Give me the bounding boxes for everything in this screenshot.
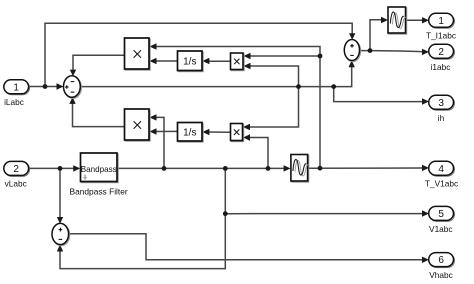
integrator 1/s block 2 bbox=[178, 123, 204, 143]
arrow into sum3 bottom bbox=[349, 60, 355, 67]
svg-text:T_I1abc: T_I1abc bbox=[426, 30, 456, 40]
wire node to smallX1 top input bbox=[250, 55, 321, 57]
outport 1 T_I1abc bbox=[426, 13, 456, 40]
wire vLabc branch down to sum2 top bbox=[59, 168, 61, 217]
arrow into sum3 top bbox=[349, 33, 355, 40]
inport 1 iLabc bbox=[4, 80, 30, 107]
outport 4 T_V1abc bbox=[425, 161, 458, 188]
junction node sum1 output to smallX chain bbox=[296, 84, 301, 89]
arrow into outport i1abc bbox=[422, 49, 429, 55]
svg-text:ih: ih bbox=[438, 113, 445, 123]
sum1 bbox=[64, 76, 82, 99]
arrow into product1 top input bbox=[150, 43, 157, 49]
scope block 2 (waveform icon) bbox=[291, 155, 309, 183]
wire feedback up from scope2 output bbox=[157, 47, 321, 169]
svg-text:1: 1 bbox=[13, 82, 19, 93]
wire sum1 output bbox=[80, 86, 333, 88]
sum2 bbox=[52, 223, 70, 245]
svg-text:iLabc: iLabc bbox=[4, 97, 24, 107]
svg-text:1: 1 bbox=[438, 16, 444, 27]
wire iLabc to sum1 bbox=[29, 86, 57, 88]
sum3 bbox=[344, 40, 360, 62]
svg-text:vLabc: vLabc bbox=[5, 179, 27, 189]
wire integrator1 to product1 bottom input bbox=[157, 60, 178, 62]
wire node to smallX2 top input bbox=[249, 87, 299, 127]
wire branch to product2 top input bbox=[157, 117, 165, 168]
inport 2 vLabc bbox=[4, 161, 30, 188]
wire sum2 output to outport Vhabc bbox=[69, 234, 423, 260]
svg-text:2: 2 bbox=[13, 164, 19, 175]
arrow into scope2 input bbox=[284, 165, 291, 171]
wire bandpass output to scope2 bbox=[117, 167, 285, 169]
arrow into sum2 top bbox=[57, 217, 63, 224]
svg-text:1/s: 1/s bbox=[183, 56, 196, 67]
arrow into sum1 top bbox=[70, 70, 76, 77]
arrow into sum1 left bbox=[57, 83, 64, 89]
svg-text:i1abc: i1abc bbox=[431, 62, 451, 72]
junction node feedback split bbox=[318, 54, 323, 59]
outport 3 ih bbox=[429, 95, 455, 123]
wire smallX2 to integrator2 bbox=[209, 131, 231, 133]
product block X2 bbox=[125, 109, 151, 141]
svg-text:Vhabc: Vhabc bbox=[429, 270, 453, 280]
wire scope1 to outport T_I1abc bbox=[406, 19, 423, 21]
svg-text:1/s: 1/s bbox=[183, 127, 196, 138]
arrow into outport ih bbox=[422, 98, 429, 104]
arrow into integrator1 input bbox=[202, 58, 209, 64]
arrow into smallX2 top input bbox=[243, 124, 250, 130]
arrow into integrator2 input bbox=[202, 129, 209, 135]
wire branch to smallX2 bottom input bbox=[249, 138, 268, 169]
bandpass filter block bbox=[70, 153, 128, 196]
arrow into smallX1 bottom input bbox=[244, 63, 251, 69]
svg-text:2: 2 bbox=[438, 47, 444, 58]
wire smallX1 to integrator1 bbox=[209, 60, 231, 62]
arrow into sum2 bottom bbox=[57, 245, 63, 252]
arrow into product1 bottom input bbox=[150, 58, 157, 64]
junction node scope2 output feedback bbox=[318, 166, 323, 171]
arrow into outport V1abc bbox=[422, 210, 429, 216]
svg-text:Bandpass Filter: Bandpass Filter bbox=[70, 186, 128, 196]
wire iLabc branch up to sum3 top bbox=[45, 23, 352, 86]
wire product1 output to sum1 top bbox=[73, 55, 125, 70]
wire product2 output to sum1 bottom bbox=[73, 104, 125, 127]
junction node vLabc branch bbox=[58, 166, 63, 171]
small multiply block X3 bbox=[231, 53, 245, 71]
arrow into outport Vhabc bbox=[422, 257, 429, 263]
wire sum3 output to scope1 bbox=[359, 20, 381, 51]
svg-text:6: 6 bbox=[438, 255, 444, 266]
small multiply block X4 bbox=[231, 124, 244, 142]
arrow into outport T_V1abc bbox=[422, 165, 429, 171]
product block X1 bbox=[125, 38, 151, 70]
wire vLabc to bandpass bbox=[29, 167, 75, 169]
arrow into product2 bottom input bbox=[150, 128, 157, 134]
outport 2 i1abc bbox=[429, 44, 455, 72]
wire sum1 output to sum3 bottom bbox=[334, 67, 352, 87]
junction node bandpass line down branch bbox=[223, 166, 228, 171]
wire branch down to sum2 bottom bbox=[60, 168, 225, 268]
wire node to smallX1 bottom input bbox=[250, 66, 299, 87]
arrow into scope1 input bbox=[381, 17, 388, 23]
svg-text:3: 3 bbox=[438, 98, 444, 109]
svg-text:4: 4 bbox=[438, 164, 444, 175]
arrow into bandpass input bbox=[73, 165, 80, 171]
wire scope2 to outport T_V1abc bbox=[308, 167, 423, 169]
wire branch to outport V1abc bbox=[225, 213, 422, 215]
junction node at iLabc branch bbox=[43, 84, 48, 89]
outport 6 Vhabc bbox=[429, 253, 455, 280]
arrow into smallX1 top input bbox=[244, 53, 251, 59]
svg-text:5: 5 bbox=[438, 209, 444, 220]
junction node bandpass line to smallX2 bbox=[266, 166, 271, 171]
svg-text:Bandpass: Bandpass bbox=[81, 165, 117, 174]
arrow into product2 top input bbox=[150, 114, 157, 120]
junction node sum1 output split bbox=[331, 84, 336, 89]
scope block 1 (waveform icon) bbox=[388, 7, 407, 34]
svg-text:T_V1abc: T_V1abc bbox=[425, 178, 458, 188]
integrator 1/s block 1 bbox=[178, 51, 204, 72]
svg-text:V1abc: V1abc bbox=[429, 224, 453, 234]
wire integrator2 to product2 bottom input bbox=[157, 130, 178, 132]
arrow into smallX2 bottom input bbox=[243, 134, 250, 140]
junction node sum3 output split bbox=[368, 48, 373, 53]
wire sum3 output to outport i1abc bbox=[370, 51, 423, 52]
wire sum1 output to outport ih bbox=[334, 87, 423, 102]
arrow into sum1 bottom bbox=[69, 97, 75, 104]
junction node bandpass line to product2 bbox=[162, 166, 167, 171]
outport 5 V1abc bbox=[429, 206, 455, 234]
arrow into outport T_I1abc bbox=[422, 17, 429, 23]
junction node V1abc branch bbox=[223, 211, 228, 216]
